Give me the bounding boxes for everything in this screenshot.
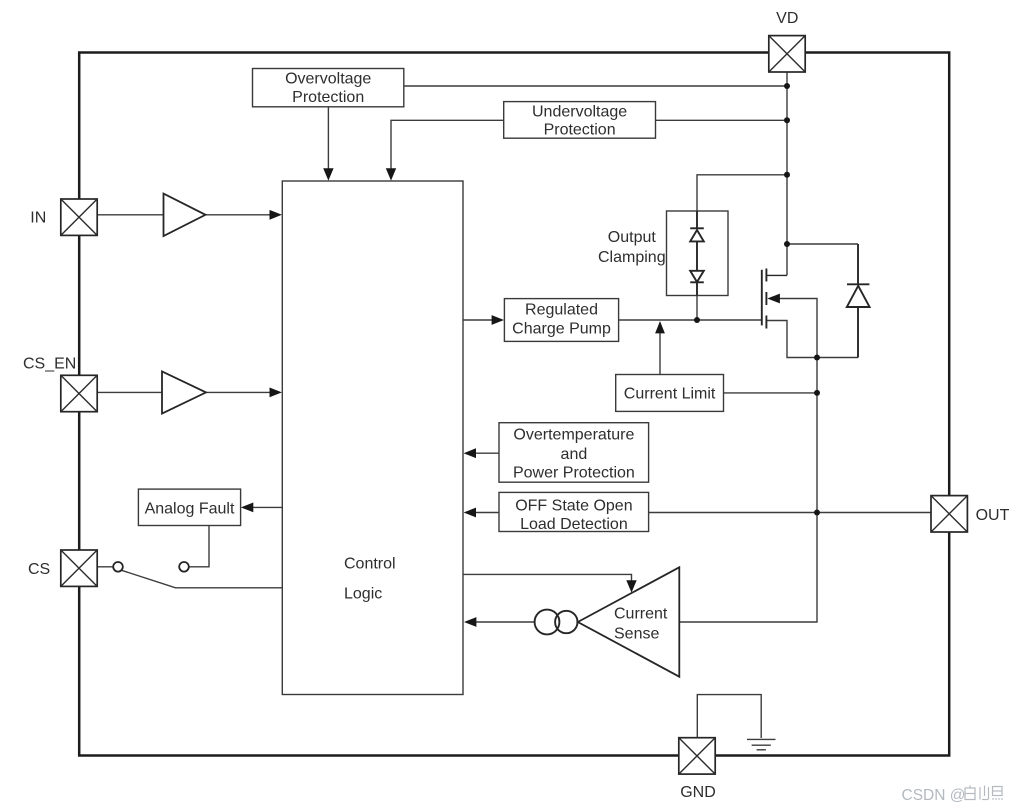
pin CS [61,550,97,586]
wire current limit to gate wire [659,333,661,375]
wire control logic to analog fault [253,506,282,508]
wire OFF state detection to OUT pin [649,512,932,514]
svg-text:Regulated: Regulated [525,301,598,318]
svg-text:CS: CS [28,561,50,578]
node source-body [814,355,820,361]
svg-text:GND: GND [680,784,716,801]
wire control logic to current sense top [463,574,632,581]
current mirror circle B [555,611,577,633]
box analog fault [138,489,240,525]
pin OUT [931,496,967,532]
svg-text:Current Limit: Current Limit [624,386,716,403]
svg-text:VD: VD [776,10,798,27]
wire undervoltage to control logic [391,120,504,169]
svg-text:Sense: Sense [614,625,659,642]
wire switch blade to control logic [122,570,282,587]
arrowhead buffer to control [270,210,282,220]
wire overtemperature to control logic [476,452,500,454]
arrowhead Q1 body [767,294,780,304]
svg-text:OUT: OUT [976,507,1010,524]
wire VD rail branch to output clamping [697,175,787,211]
arrowhead OFF state to control [464,508,476,518]
svg-text:Overvoltage: Overvoltage [285,71,371,88]
wire current limit to output node [724,392,818,394]
svg-text:Protection: Protection [544,122,616,139]
wire VD vertical to MOSFET drain [786,73,788,276]
wire overvoltage to control logic [327,107,329,169]
wire OFF state to control logic [476,512,500,514]
svg-text:Analog Fault: Analog Fault [145,500,235,517]
node current limit [814,390,820,396]
svg-text:Control: Control [344,556,396,573]
node VD-clamp [784,172,790,178]
wire charge pump to MOSFET gate [619,319,761,321]
svg-text:Output: Output [608,229,657,246]
transistor Q1 power MOSFET [762,269,787,329]
box undervoltage protection [504,102,656,139]
arrowhead buffer to control [270,388,282,398]
wire VD rail branch to diode D2 [787,243,858,245]
box current limit [616,375,724,412]
svg-text:IN: IN [30,210,46,227]
buffer A1 input [164,194,206,236]
arrowhead to charge pump [492,315,504,325]
wire clamp to gate node [696,296,698,321]
node OUT [814,510,820,516]
box output clamping [667,211,729,296]
wire buffer to control logic [206,391,271,393]
svg-text:Undervoltage: Undervoltage [532,103,627,120]
wire control logic to regulated charge pump [463,319,492,321]
arrowhead overvoltage down [323,168,333,180]
svg-text:Load Detection: Load Detection [520,516,628,533]
pin CS_EN [61,375,97,411]
amplifier current sense [578,567,680,676]
arrowhead undervoltage down [386,168,396,180]
box control logic [282,181,463,695]
IC boundary [79,53,949,756]
box OFF state open load detection [499,492,649,531]
wire MOSFET body to output node vertical [679,299,817,623]
wire current sense output to control logic [476,621,535,623]
pin IN [61,199,97,235]
svg-text:Overtemperature: Overtemperature [513,427,634,444]
svg-text:OFF State Open: OFF State Open [515,498,632,515]
switch terminal circle 1 [113,562,123,572]
svg-text:Power Protection: Power Protection [513,465,635,482]
wire buffer to control logic [206,214,271,216]
node gate [694,317,700,323]
arrowhead control to sense [626,580,636,592]
current mirror circle A [535,610,560,635]
diode D2 output [847,244,870,358]
arrowhead current limit up [655,321,665,333]
svg-text:CSDN @: CSDN @ [902,787,966,804]
ground [747,739,776,749]
switch terminal circle 2 [179,562,189,572]
svg-text:Charge Pump: Charge Pump [512,320,611,337]
svg-text:Logic: Logic [344,586,382,603]
svg-text:Protection: Protection [292,89,364,106]
pin VD [769,36,805,72]
svg-text:Clamping: Clamping [598,249,666,266]
box overtemperature and power protection [499,423,649,483]
wire CS pin to switch [97,566,113,568]
svg-text:CS_EN: CS_EN [23,355,76,372]
svg-text:Current: Current [614,606,668,623]
arrowhead overtemperature to control [464,448,476,458]
wire IN pin to buffer [97,214,163,216]
wire undervoltage output to VD rail [656,119,788,121]
wire GND loop to ground symbol [697,695,761,738]
box regulated charge pump [504,299,618,342]
arrowhead to analog fault [241,503,253,513]
node VD-drain [784,241,790,247]
wire analog fault to switch terminal [189,526,209,567]
box overvoltage protection [253,69,404,107]
diode Z2 clamp lower [690,271,704,296]
wire MOSFET source to D2 anode [766,321,858,358]
arrowhead sense out to control [464,617,476,627]
svg-text:and: and [561,446,588,463]
wire CS_EN pin to buffer [97,391,162,393]
node VD-undervoltage [784,117,790,123]
node VD-overvoltage [784,83,790,89]
wire overvoltage output to VD rail [404,85,787,87]
pin GND [679,738,715,774]
diode Z1 clamp upper [690,211,704,271]
buffer A2 enable [162,371,206,413]
